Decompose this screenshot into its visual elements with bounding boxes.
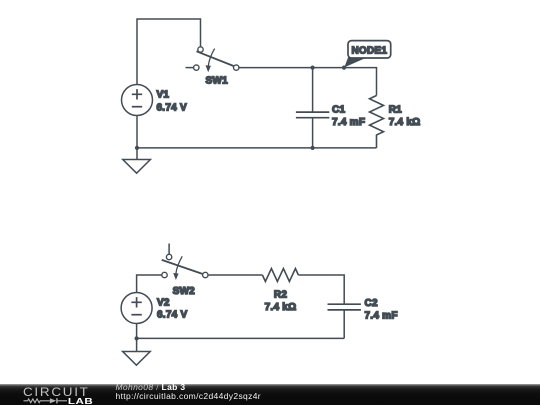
label SW2: [173, 286, 196, 297]
svg-text:C1: C1: [332, 105, 345, 116]
wire V1 top to SW1 top: [137, 19, 201, 85]
CircuitLab logo: [0, 384, 110, 405]
wire V2 top to SW2 left: [137, 275, 162, 293]
svg-text:SW2: SW2: [173, 286, 196, 297]
switch SW2: [162, 244, 208, 281]
resistor R2: [262, 269, 298, 282]
switch SW1: [186, 47, 239, 72]
svg-text:7.4 mF: 7.4 mF: [332, 117, 365, 128]
footer title: [116, 383, 261, 401]
footer bar: [0, 384, 540, 405]
wire SW2 right to R2: [208, 274, 262, 276]
svg-text:SW1: SW1: [205, 76, 228, 87]
label R1 value: [389, 105, 421, 129]
label V2 value: [157, 298, 187, 321]
svg-text:C2: C2: [365, 298, 378, 309]
svg-text:R2: R2: [274, 290, 287, 301]
ground circuit 2: [123, 338, 151, 365]
footer url: [116, 391, 261, 401]
voltage source V2: [121, 293, 152, 339]
label SW1: [205, 76, 228, 87]
label C2 value: [365, 298, 398, 321]
label R2 value: [265, 290, 297, 313]
label V1 value: [157, 90, 187, 114]
svg-text:6.74 V: 6.74 V: [157, 309, 187, 320]
svg-text:LAB: LAB: [68, 397, 93, 405]
svg-text:7.4 kΩ: 7.4 kΩ: [389, 117, 421, 128]
svg-text:R1: R1: [389, 105, 402, 116]
wire SW1 right to R1 top: [239, 68, 377, 96]
capacitor C2: [328, 304, 361, 338]
junction V2 ground: [135, 336, 139, 340]
svg-text:NODE1: NODE1: [351, 45, 387, 56]
junction C1 top: [311, 66, 315, 70]
wire bottom circuit 1: [137, 147, 377, 149]
svg-text:V1: V1: [157, 90, 170, 101]
svg-text:7.4 kΩ: 7.4 kΩ: [265, 302, 297, 313]
svg-text:6.74 V: 6.74 V: [157, 103, 187, 114]
svg-text:7.4 mF: 7.4 mF: [365, 310, 398, 321]
junction V1 ground: [135, 146, 139, 150]
label C1 value: [332, 105, 365, 129]
voltage source V1: [122, 85, 153, 148]
wire R2 to C2 top: [298, 275, 344, 304]
junction C1 bottom: [311, 146, 315, 150]
ground circuit 1: [123, 148, 151, 173]
resistor R1: [370, 96, 384, 148]
node NODE1: [342, 41, 391, 70]
svg-text:V2: V2: [157, 298, 170, 309]
wire bottom circuit 2: [137, 337, 345, 339]
capacitor C1: [296, 68, 329, 148]
